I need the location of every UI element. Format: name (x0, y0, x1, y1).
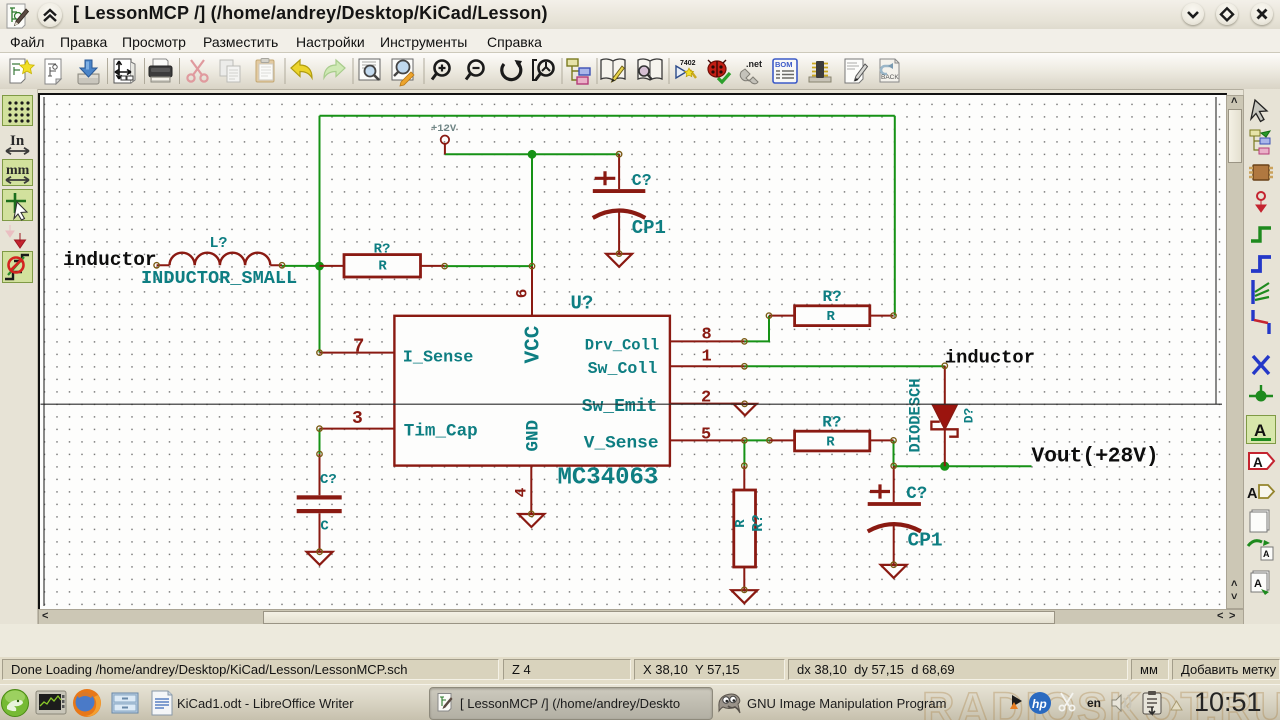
HV wires button (pressed) (3, 252, 33, 283)
wire pin8 to R2 (744, 316, 769, 342)
svg-text:BOM: BOM (775, 60, 793, 69)
sheet border bottom edge (41, 403, 1223, 405)
lowriter doc icon (152, 691, 172, 715)
find (359, 59, 380, 80)
wire right vertical to R2 (894, 116, 896, 316)
geeko menu (2, 690, 29, 717)
tray speaker (1112, 695, 1131, 711)
svg-text:Sw_Coll: Sw_Coll (588, 359, 658, 378)
redo (disabled) (324, 60, 345, 78)
svg-text:Sw_Emit: Sw_Emit (582, 397, 658, 417)
tool place hierarchical label (1247, 485, 1274, 502)
svg-text:A: A (1247, 486, 1258, 502)
units inches button (6, 133, 29, 154)
netlist .net (740, 59, 762, 84)
annotate 7402 (676, 60, 696, 78)
svg-text:R: R (827, 309, 836, 325)
library browser book (638, 59, 662, 80)
tool no connect (1253, 356, 1269, 374)
drawer (112, 693, 138, 713)
svg-text:V_Sense: V_Sense (584, 433, 659, 453)
svg-text:6: 6 (514, 289, 532, 299)
svg-text:C?: C? (632, 171, 652, 190)
ground at pin 2 (734, 401, 757, 415)
kicad task icon (438, 694, 453, 712)
svg-text:.net: .net (746, 59, 762, 69)
tool place junction (1249, 385, 1273, 402)
resistor R2 (766, 288, 896, 326)
book with pencil (601, 59, 625, 82)
pin 3 Tim_Cap (317, 409, 395, 431)
system monitor (36, 691, 66, 714)
pin 6 VCC (514, 263, 535, 315)
BOM (773, 59, 797, 83)
tray klipper (1143, 691, 1161, 714)
svg-text:5: 5 (701, 426, 711, 445)
grid toggle button (pressed) (3, 96, 33, 126)
svg-text:7402: 7402 (680, 60, 696, 67)
svg-text:inductor: inductor (945, 347, 1035, 369)
wire left vertical to I_Sense (319, 116, 321, 353)
ERC bug (708, 60, 730, 82)
pin 7 I_Sense (317, 336, 395, 358)
svg-text:VCC: VCC (523, 325, 546, 363)
op-amp U1 MC34063 (394, 293, 670, 492)
capacitor C1 (CP1 polarized at +12V) (593, 152, 666, 254)
wire mid vertical VCC (531, 154, 533, 266)
wire top horizontal from node A to R2 branch (320, 115, 895, 117)
sheet size settings (114, 59, 135, 83)
tool import sheet pin (1248, 540, 1273, 560)
hidden pins button (6, 225, 26, 248)
junction at inductor/R1 node (315, 262, 324, 271)
hierarchy navigator (567, 59, 590, 84)
svg-text:hp: hp (1032, 697, 1047, 711)
wire R3 down to C3 (893, 440, 895, 466)
wire pin1 to diode (744, 365, 944, 367)
svg-text:3: 3 (352, 409, 363, 429)
tool place power port (1256, 192, 1266, 212)
svg-text:U?: U? (571, 293, 594, 315)
pin 5 V_Sense (670, 426, 772, 445)
tool place label (active) (1247, 416, 1276, 444)
wire Vout horizontal (894, 465, 1032, 467)
ground below C1 (606, 251, 632, 267)
resistor R3 (770, 413, 897, 451)
ground below C2 (307, 549, 333, 565)
tool place sheet pin (1251, 571, 1269, 595)
tray scissors (1059, 693, 1074, 711)
gimp wilber (719, 694, 740, 713)
svg-text:BACK: BACK (881, 74, 899, 81)
svg-text:Vout(+28V): Vout(+28V) (1032, 445, 1159, 469)
svg-text:R: R (733, 519, 749, 528)
units mm button (pressed) (3, 160, 33, 186)
tray hide arrow (1171, 701, 1182, 710)
label inductor (left) (63, 249, 157, 271)
capacitor C2 (297, 451, 342, 551)
junction at Vout node (940, 462, 949, 471)
svg-text:C: C (320, 519, 329, 535)
tool place global label (1249, 453, 1274, 470)
svg-text:A: A (1263, 549, 1270, 559)
cvpcb footprints (809, 61, 831, 82)
svg-text:A: A (1254, 421, 1266, 440)
save (78, 60, 99, 84)
svg-text:R: R (826, 434, 835, 450)
cursor shape button (pressed) (3, 190, 33, 221)
zoom out (466, 61, 484, 80)
wire +12V horizontal (445, 153, 619, 155)
svg-text:MC34063: MC34063 (558, 465, 659, 492)
junction at +12V wire (528, 150, 537, 159)
print (149, 59, 172, 82)
power +12V (431, 123, 457, 154)
svg-text:R: R (378, 259, 387, 275)
wire pin5 to R3 (744, 439, 769, 441)
svg-text:inductor: inductor (63, 249, 157, 271)
pin 1 Sw_Coll (670, 348, 747, 369)
zoom in (432, 61, 450, 80)
inductor L1 (141, 235, 297, 289)
wire Tim_Cap to C2 (319, 429, 321, 454)
firefox (73, 689, 101, 717)
capacitor C3 (CP1 polarized at Vout) (868, 463, 943, 565)
svg-text:C?: C? (906, 484, 927, 504)
tray hp (1029, 692, 1051, 714)
label Vout(+28V) (1032, 445, 1159, 469)
svg-text:7: 7 (353, 336, 364, 358)
back annotate (880, 59, 899, 82)
svg-text:GND: GND (524, 420, 544, 452)
open schematic (45, 59, 61, 84)
svg-text:INDUCTOR_SMALL: INDUCTOR_SMALL (141, 268, 297, 289)
svg-text:1: 1 (702, 348, 712, 367)
ground below R4 (731, 587, 757, 603)
svg-text:mm: mm (6, 163, 30, 178)
svg-text:CP1: CP1 (908, 529, 943, 551)
undo (291, 60, 312, 78)
pin 8 Drv_Coll (670, 326, 747, 345)
resistor R4 (vertical) (733, 463, 767, 590)
svg-text:R?: R? (751, 514, 767, 532)
svg-text:C?: C? (320, 472, 337, 488)
svg-text:R?: R? (374, 241, 391, 257)
svg-text:Drv_Coll: Drv_Coll (585, 336, 659, 354)
find and replace (392, 59, 414, 86)
cut (disabled) (187, 60, 207, 82)
sheet border right edge (1215, 97, 1217, 404)
tool bus-to-bus entry (1253, 310, 1269, 334)
tool place hierarchical sheet (1250, 510, 1269, 532)
tool wire-to-bus entry (1253, 280, 1269, 304)
tool place bus (1251, 257, 1271, 271)
redraw view (502, 60, 522, 80)
tool place component (1249, 165, 1273, 180)
svg-text:A: A (1254, 578, 1262, 590)
svg-text:CP1: CP1 (632, 217, 666, 239)
ground below C3 (881, 562, 907, 578)
tool place wire (1251, 228, 1271, 241)
tool cursor (1251, 100, 1267, 122)
wire R1 to VCC pin (445, 265, 532, 267)
svg-text:D?: D? (962, 407, 977, 423)
diode D1 DIODESCH (907, 363, 977, 466)
svg-text:4: 4 (513, 487, 531, 497)
pin 2 Sw_Emit (670, 389, 745, 408)
zoom fit (533, 60, 554, 80)
svg-text:Tim_Cap: Tim_Cap (404, 422, 478, 442)
sheet border left edge (43, 97, 45, 606)
svg-text:A: A (1253, 455, 1263, 470)
svg-text:R?: R? (823, 288, 842, 306)
new schematic (10, 59, 34, 83)
resistor R1 (320, 241, 448, 277)
svg-text:DIODESCH: DIODESCH (907, 379, 925, 453)
wire inductor to junction (282, 265, 320, 267)
svg-text:R?: R? (822, 413, 841, 431)
pin 4 GND (513, 466, 532, 514)
ground below U1 (518, 511, 544, 527)
svg-text:In: In (10, 133, 25, 149)
plot (845, 59, 868, 83)
tray play + cone (1010, 695, 1022, 709)
wire pin5 down to R4 (743, 440, 745, 465)
label inductor (right) (945, 347, 1035, 369)
svg-text:L?: L? (210, 235, 228, 252)
paste (disabled) (256, 59, 274, 83)
tool hierarchy navigator (1250, 130, 1270, 154)
svg-text:8: 8 (702, 326, 712, 345)
copy (disabled) (220, 60, 240, 82)
svg-text:I_Sense: I_Sense (403, 348, 474, 367)
svg-text:+12V: +12V (431, 123, 457, 135)
